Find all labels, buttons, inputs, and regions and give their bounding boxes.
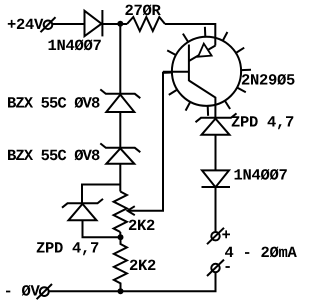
wire Z2 to P1 top with branch to Z3: [119, 164, 121, 192]
wire R1 to Q1 emitter: [165, 24, 215, 46]
diode D1 1N4007: [85, 10, 103, 36]
node B junction dot: [118, 234, 124, 240]
label ZPD 4,7 (left): [37, 242, 99, 255]
label - sign: [226, 266, 230, 268]
zener Z2 BZX 55C 0V8 (lower): [100, 143, 140, 163]
wire Z4 to D2: [215, 135, 217, 171]
terminal +24V: [41, 17, 56, 32]
terminal - output: [207, 260, 224, 276]
wire D1 cathode to node A: [102, 23, 127, 25]
potentiometer P1 2K2 (upper): [114, 192, 127, 238]
wiper arrow of P1 from Q1 base: [128, 72, 164, 215]
label 4 - 20mA: [225, 246, 297, 257]
terminal 0V: [37, 284, 52, 299]
label + sign: [222, 230, 230, 238]
resistor R2 2K2 (lower): [114, 237, 127, 291]
label ZPD 4,7 (right): [232, 116, 294, 129]
wire D2 to + terminal: [215, 187, 217, 232]
label 2K2 (lower): [130, 260, 156, 270]
label BZX 55C 0V8 (lower): [8, 149, 100, 160]
label 1N4007 (top): [49, 39, 101, 50]
wire Z1 to Z2: [119, 112, 121, 148]
node C junction dot: [118, 288, 124, 294]
zener Z4 ZPD 4,7 (right, at Q1 collector): [196, 113, 237, 134]
label 2K2 (upper): [129, 220, 155, 230]
wire Z3 to node B: [83, 220, 121, 237]
label BZX 55C 0V8 (upper): [8, 97, 100, 108]
label +24V: [8, 19, 44, 29]
wire branch to left zener Z3: [82, 185, 120, 204]
label 1N4007 (right): [235, 169, 287, 180]
wire - terminal to bottom rail: [49, 272, 216, 291]
label 2N2905: [242, 74, 295, 85]
transistor Q1 2N2905: [162, 27, 251, 118]
label - 0V: [6, 285, 40, 296]
resistor R1 270R: [127, 17, 165, 31]
diode D2 1N4007 (right): [202, 170, 231, 187]
label 270R: [125, 4, 160, 15]
zener Z3 ZPD 4,7 (left): [62, 199, 103, 220]
terminal + output: [207, 228, 224, 244]
node A junction dot: [117, 21, 123, 27]
wire +24V terminal to D1 anode: [52, 23, 84, 25]
zener Z1 BZX 55C 0V8 (upper): [100, 89, 140, 112]
wire node A down to Z1: [119, 24, 121, 94]
